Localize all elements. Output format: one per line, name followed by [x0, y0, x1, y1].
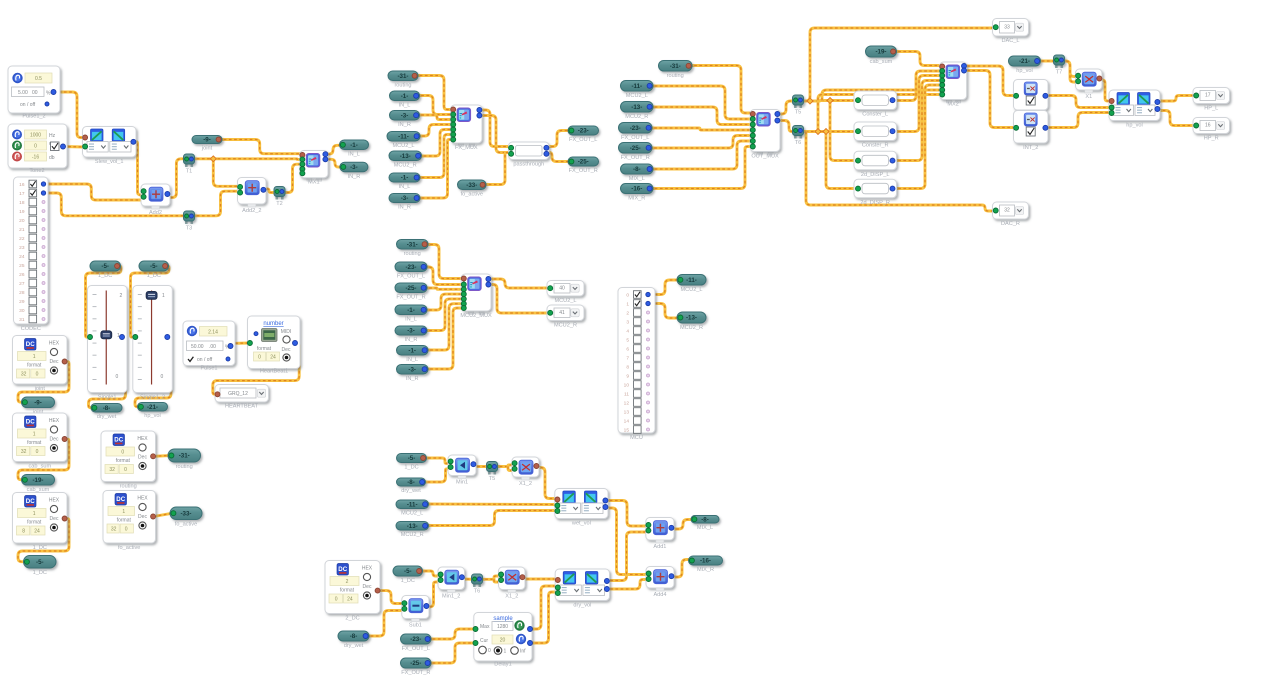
pill MCU2_L ref	[387, 132, 420, 150]
svg-text:-5-: -5-	[408, 455, 416, 462]
wire hp_vol mod to HP_R	[1158, 111, 1197, 126]
wire junction	[210, 156, 216, 162]
wire MX1 to pill IN_L	[323, 145, 343, 154]
svg-text:fo_active: fo_active	[118, 545, 140, 551]
svg-text:32: 32	[21, 449, 27, 455]
wire pill IN_R to MCU2_MUX	[424, 299, 461, 331]
svg-text:24: 24	[270, 355, 276, 361]
svg-text:1_DC: 1_DC	[98, 273, 112, 279]
wire Add4 to pill MIX_R	[671, 560, 693, 578]
wire MCU2_MUX to MCU2_R	[489, 285, 551, 314]
module 2d_DISP_R	[854, 179, 897, 206]
svg-text:T6: T6	[795, 140, 802, 146]
pill dry_wet ref b	[338, 631, 369, 649]
wire pill FX_OUT_R to MCU2_MUX	[424, 288, 461, 289]
svg-text:Inf: Inf	[520, 649, 526, 655]
svg-text:FX_OUT_L: FX_OUT_L	[569, 137, 597, 143]
wire T7 to X1 b	[1070, 70, 1078, 82]
wire pill FX_OUT_L to MCU2_MUX	[424, 267, 461, 285]
wire pill MCU2_L to wet_vol	[426, 503, 555, 506]
wire pill joint to MX1	[219, 140, 302, 154]
wire T5b to X1_2 a	[495, 465, 513, 467]
pill IN_L ref c	[389, 173, 420, 190]
svg-text:MCU2_L: MCU2_L	[554, 298, 576, 304]
pill IN_R send	[340, 162, 368, 180]
pill 1_DC ref d	[393, 566, 423, 584]
svg-text:Dec: Dec	[138, 514, 147, 520]
svg-text:50.00: 50.00	[191, 344, 204, 350]
wire MCU 1 to pill MCU2_R	[650, 304, 680, 319]
svg-text:DC: DC	[338, 566, 347, 573]
pill IN_L ref b	[390, 91, 420, 109]
wire pill routing to MCU2_MUX	[425, 245, 461, 279]
svg-text:-5-: -5-	[404, 568, 412, 575]
wire MX2 to INT_1	[962, 66, 1016, 96]
svg-text:MIX_L: MIX_L	[697, 525, 713, 531]
svg-text:DAC_R: DAC_R	[1001, 221, 1020, 227]
svg-text:-8-: -8-	[701, 517, 709, 524]
svg-text:MIX_R: MIX_R	[628, 196, 645, 202]
module Add4	[646, 567, 674, 599]
svg-text:0: 0	[488, 648, 491, 654]
wire pill IN_L 2 to FX_MUX	[417, 135, 451, 178]
svg-text:24: 24	[19, 254, 25, 260]
svg-text:24: 24	[34, 529, 40, 535]
svg-text:22: 22	[19, 236, 25, 242]
svg-text:19: 19	[19, 209, 25, 215]
svg-text:MX1: MX1	[308, 180, 320, 186]
wire FX_MUX to passthrough 1	[479, 110, 509, 147]
wire dry_vol to Add1	[605, 532, 646, 581]
svg-text:routing: routing	[394, 83, 411, 89]
svg-text:OUT_MUX: OUT_MUX	[751, 154, 779, 160]
svg-text:-11-: -11-	[631, 83, 642, 90]
module CODEC list	[14, 177, 49, 332]
svg-text:-21-: -21-	[1019, 58, 1030, 65]
svg-text:MX2: MX2	[947, 102, 959, 108]
wire T6 to MX2 g6	[818, 95, 941, 132]
svg-text:-1-: -1-	[401, 93, 409, 100]
wire pill IN_R to FX_MUX	[416, 115, 451, 120]
svg-text:1: 1	[33, 432, 36, 438]
svg-text:MIX_R: MIX_R	[697, 567, 714, 573]
wire T6b to X1_3 a	[480, 576, 499, 579]
svg-text:Hz: Hz	[49, 133, 56, 139]
svg-text:IN_R: IN_R	[398, 205, 411, 211]
pill 1_DC ref b	[139, 261, 169, 279]
node T5	[793, 95, 804, 116]
wire Conster_L to MX2	[893, 71, 940, 101]
svg-text:Dec: Dec	[282, 347, 291, 353]
module Min1	[448, 455, 476, 486]
module wet_vol	[555, 489, 608, 527]
wire X1_2 to wet_vol	[536, 468, 555, 499]
wire INT_1 to hp_vol mod	[1044, 96, 1111, 108]
svg-text:00: 00	[32, 90, 38, 96]
svg-text:Dec: Dec	[50, 437, 59, 443]
pill hp_vol send	[138, 403, 168, 420]
svg-text:dry_wet: dry_wet	[97, 414, 117, 420]
svg-text:5: 5	[626, 338, 629, 344]
svg-text:-31-: -31-	[397, 73, 408, 80]
svg-text:fo_active: fo_active	[175, 522, 197, 528]
svg-text:format: format	[257, 346, 272, 352]
wire pill 1_DC to Min1	[423, 458, 448, 464]
wire pill cab_sum to MX2	[893, 52, 940, 66]
wire pill MIX_R to OUT_MUX	[650, 147, 751, 189]
svg-text:-25-: -25-	[630, 145, 641, 152]
svg-text:8: 8	[22, 529, 25, 535]
svg-text:41: 41	[559, 310, 565, 316]
svg-text:CODEC: CODEC	[21, 326, 41, 332]
svg-text:0: 0	[125, 527, 128, 533]
svg-text:32: 32	[21, 372, 27, 378]
pill routing ref d	[659, 61, 693, 80]
wire pill 1_DC to Single1	[86, 266, 122, 337]
svg-text:-23-: -23-	[410, 636, 421, 643]
wire T5b to X1_2 b	[508, 467, 512, 471]
svg-text:12: 12	[624, 401, 630, 407]
module DC fo_active	[103, 491, 156, 552]
wire MCU 0 to pill MCU2_L	[650, 280, 680, 295]
svg-text:T6: T6	[474, 589, 481, 595]
module Conster_R	[854, 122, 897, 149]
svg-text:16: 16	[1205, 123, 1211, 129]
svg-text:Conster_R: Conster_R	[862, 143, 889, 149]
svg-text:-31-: -31-	[179, 453, 190, 460]
wire T2 to MX1	[282, 164, 302, 192]
svg-text:Sub1: Sub1	[409, 623, 422, 629]
svg-text:IN_R: IN_R	[348, 174, 361, 180]
svg-text:IN_R: IN_R	[405, 337, 418, 343]
svg-text:-5-: -5-	[36, 559, 44, 566]
wire pill routing to OUT_MUX	[689, 66, 750, 114]
module Conster_L	[854, 91, 897, 118]
svg-text:-1-: -1-	[401, 175, 409, 182]
dropdown DAC_R	[993, 202, 1029, 227]
svg-text:FX_OUT_L: FX_OUT_L	[621, 135, 649, 141]
wire dry_vol to Add4	[605, 580, 646, 590]
wire pill dry_wet to Min1	[423, 469, 449, 482]
svg-text:MCU2_R: MCU2_R	[625, 114, 648, 120]
dropdown MCU2_L	[547, 281, 584, 305]
pill cab_sum send	[22, 475, 55, 494]
svg-text:joint: joint	[34, 386, 46, 392]
pill IN_R ref e	[397, 365, 429, 383]
svg-text:MIDI: MIDI	[281, 329, 292, 335]
svg-text:0: 0	[34, 144, 37, 150]
wire T6 to Conster_R	[801, 130, 859, 133]
svg-text:T5: T5	[795, 110, 802, 116]
svg-text:%: %	[46, 91, 51, 97]
svg-text:T1: T1	[186, 169, 193, 175]
svg-text:-9-: -9-	[34, 399, 42, 406]
svg-text:IN_L: IN_L	[348, 152, 360, 158]
wire DC 2_DC to Sub1	[377, 591, 402, 604]
svg-text:hp_vol: hp_vol	[1126, 123, 1142, 129]
svg-text:-31-: -31-	[407, 241, 418, 248]
wire junction	[823, 129, 829, 135]
svg-text:Cur: Cur	[480, 638, 488, 644]
pill MCU2_R ref	[389, 151, 422, 169]
svg-text:-21-: -21-	[147, 404, 158, 411]
wire Delay1 to dry_vol 1	[530, 586, 555, 629]
svg-text:1000: 1000	[30, 133, 41, 139]
wire OUT_MUX to T5	[777, 101, 796, 114]
svg-text:Dec: Dec	[50, 516, 59, 522]
pill hp_vol ref	[1009, 56, 1041, 74]
node T6	[793, 126, 804, 147]
svg-text:18: 18	[19, 200, 25, 206]
module passthrough	[509, 142, 550, 168]
svg-text:Add1: Add1	[653, 544, 666, 550]
svg-text:dry_wet: dry_wet	[344, 643, 364, 649]
svg-text:21: 21	[19, 227, 25, 233]
svg-text:dry_wet: dry_wet	[401, 488, 421, 494]
svg-text:2_DC: 2_DC	[345, 616, 359, 622]
svg-text:-3-: -3-	[401, 113, 409, 120]
svg-text:-13-: -13-	[686, 315, 697, 322]
svg-text:25: 25	[19, 263, 25, 269]
svg-text:Add2: Add2	[149, 210, 162, 216]
pill 1_DC send	[24, 556, 57, 577]
svg-text:-3-: -3-	[407, 328, 415, 335]
svg-text:MCU: MCU	[630, 435, 643, 441]
svg-text:0: 0	[36, 372, 39, 378]
svg-text:32: 32	[1004, 208, 1010, 214]
module DC joint	[13, 336, 68, 393]
svg-text:GRQ_12: GRQ_12	[228, 391, 248, 397]
svg-text:0: 0	[36, 449, 39, 455]
svg-text:HEARTBEAT: HEARTBEAT	[225, 404, 259, 410]
svg-text:IN_L: IN_L	[406, 357, 418, 363]
wire wet_vol to Add1	[605, 501, 646, 527]
svg-text:10: 10	[624, 383, 630, 389]
svg-text:15: 15	[624, 428, 630, 434]
svg-text:HEX: HEX	[362, 566, 373, 572]
svg-text:cab_sum: cab_sum	[870, 59, 893, 65]
svg-text:1_DC: 1_DC	[401, 578, 415, 584]
svg-text:MCU2_R: MCU2_R	[554, 323, 577, 329]
wire Min1 to T5b	[472, 465, 490, 468]
svg-text:on / off: on / off	[197, 357, 213, 363]
wire T1 branch to Add2_2	[213, 159, 240, 187]
module Add1	[646, 518, 674, 551]
wire OUT_MUX to T6	[777, 121, 796, 132]
svg-text:passthrough: passthrough	[513, 162, 544, 168]
wire pill 1_DC to Single1_2	[131, 266, 170, 337]
module MCU2_MUX	[460, 274, 492, 319]
module Delay1	[473, 613, 533, 668]
pill joint ref	[192, 136, 222, 152]
svg-text:-11-: -11-	[398, 133, 409, 140]
svg-text:32: 32	[111, 527, 117, 533]
module Add2	[141, 184, 170, 216]
wire MX2 to INT_2	[962, 71, 1016, 128]
svg-text:1_DC: 1_DC	[147, 273, 161, 279]
node T1	[184, 154, 195, 175]
pill MIX_R send	[689, 556, 723, 573]
pill MCU2_L ref c	[396, 500, 429, 517]
module DC 1_DC	[13, 493, 68, 552]
wire passthrough to pill FX_OUT_L	[546, 131, 571, 147]
svg-text:5.00: 5.00	[18, 90, 28, 96]
svg-text:7: 7	[626, 356, 629, 362]
svg-text:FX_OUT_R: FX_OUT_R	[621, 155, 650, 161]
svg-text:routing: routing	[404, 251, 421, 257]
svg-text:-8-: -8-	[407, 479, 415, 486]
svg-text:2: 2	[346, 579, 349, 585]
svg-text:0: 0	[116, 374, 119, 380]
module hp_vol mod	[1109, 90, 1160, 129]
svg-text:format: format	[27, 440, 42, 446]
wire pill MCU2_R to FX_MUX	[419, 130, 451, 157]
svg-text:-1-: -1-	[407, 307, 415, 314]
wire pill FX_OUT_L to OUT_MUX	[649, 128, 750, 130]
svg-text:1_DC: 1_DC	[33, 570, 47, 576]
svg-text:9: 9	[626, 374, 629, 380]
wire pill FX_OUT_L to Delay1	[428, 629, 474, 639]
svg-text:HEX: HEX	[137, 496, 148, 502]
node T5b	[487, 462, 498, 483]
svg-text:31: 31	[19, 317, 25, 323]
svg-text:HP_L: HP_L	[1204, 106, 1218, 112]
svg-text:FX_MUX: FX_MUX	[455, 145, 478, 151]
svg-text:-5-: -5-	[101, 263, 109, 270]
module X1_3	[499, 567, 526, 600]
wire passthrough to pill FX_OUT_R	[546, 153, 571, 162]
svg-text:Dec: Dec	[363, 584, 372, 590]
svg-text:0: 0	[335, 597, 338, 603]
svg-text:-23-: -23-	[578, 128, 589, 135]
module MCU list	[618, 288, 655, 442]
svg-text:DAC_L: DAC_L	[1001, 38, 1019, 44]
wire T3 to Add2_2	[192, 191, 241, 216]
svg-text:0.5: 0.5	[35, 76, 42, 82]
svg-text:33: 33	[1004, 24, 1010, 30]
svg-text:23: 23	[19, 245, 25, 251]
svg-text:IN_L: IN_L	[399, 184, 411, 190]
svg-text:MCU2_L: MCU2_L	[392, 143, 414, 149]
svg-text:26: 26	[19, 272, 25, 278]
svg-text:-16-: -16-	[631, 186, 642, 193]
pill 1_DC ref a	[90, 261, 121, 279]
module INT_1	[1014, 80, 1049, 111]
module Add2_2	[238, 178, 267, 215]
wire X1_3 to dry_vol	[522, 578, 556, 581]
svg-text:Single1: Single1	[98, 395, 117, 401]
wire X1 to hp_vol mod	[1099, 80, 1111, 101]
svg-text:-25-: -25-	[578, 159, 589, 166]
svg-text:FX_OUT_L: FX_OUT_L	[397, 274, 425, 280]
wire pill IN_L to FX_MUX	[416, 96, 451, 115]
svg-text:MCU2_L: MCU2_L	[626, 93, 648, 99]
svg-text:HEX: HEX	[49, 341, 60, 347]
wire T6 to DAC_R	[806, 132, 996, 212]
svg-text:HEX: HEX	[137, 436, 148, 442]
svg-text:MCU2_R: MCU2_R	[394, 163, 417, 169]
svg-text:T5: T5	[489, 476, 496, 482]
svg-text:T3: T3	[186, 226, 193, 232]
svg-text:Delay1: Delay1	[494, 662, 511, 668]
svg-text:Single1_2: Single1_2	[140, 395, 165, 401]
svg-text:format: format	[27, 520, 42, 526]
svg-text:routing: routing	[667, 73, 684, 79]
pill MIX_L send	[691, 516, 719, 532]
module Slew_vol_1	[83, 127, 137, 166]
wire DC joint to pill joint	[18, 362, 69, 403]
pill IN_R ref b	[390, 111, 420, 129]
node T3	[184, 211, 195, 232]
wire T6b to X1_3 b	[494, 579, 499, 582]
svg-text:1: 1	[33, 354, 36, 360]
svg-text:40: 40	[559, 285, 565, 291]
wire junction	[807, 98, 813, 104]
module 2d_DISP_L	[854, 151, 897, 178]
module DC routing	[101, 431, 156, 490]
wire MCU2_MUX to MCU2_L	[489, 279, 551, 288]
svg-text:-3-: -3-	[401, 195, 409, 202]
svg-text:-5-: -5-	[150, 263, 158, 270]
module Pulse1_2	[8, 66, 60, 120]
wire T5 to DAC_L	[801, 28, 997, 101]
svg-text:routing: routing	[120, 484, 137, 490]
module OUT_MUX	[750, 110, 780, 160]
module Tone2	[8, 124, 67, 174]
svg-text:FX_OUT_R: FX_OUT_R	[401, 670, 430, 676]
svg-text:27: 27	[19, 281, 25, 287]
node T6b	[472, 574, 483, 595]
wire pill MCU2_L to FX_MUX	[417, 125, 451, 137]
svg-text:Slew_vol_1: Slew_vol_1	[95, 159, 124, 165]
svg-text:Min1_2: Min1_2	[442, 594, 460, 600]
svg-text:IN_L: IN_L	[399, 103, 411, 109]
svg-text:-16: -16	[32, 155, 39, 161]
svg-text:T2: T2	[276, 201, 283, 207]
wire pill FX_OUT_R to OUT_MUX	[649, 136, 750, 149]
wire pill dry_wet to Sub1	[366, 611, 402, 637]
wire pill IN_R 2 to FX_MUX	[417, 140, 451, 199]
svg-text:2.14: 2.14	[208, 330, 218, 336]
pill IN_L ref d	[395, 305, 427, 323]
svg-text:1_DC: 1_DC	[404, 465, 418, 471]
dropdown HP_L	[1193, 88, 1230, 112]
svg-text:Tone2: Tone2	[29, 168, 44, 174]
svg-text:-31-: -31-	[670, 63, 681, 70]
dropdown MCU2_R	[547, 305, 584, 329]
wire pill MIX_L to OUT_MUX	[650, 141, 751, 169]
wire pill FX_OUT_R to Delay1	[428, 643, 474, 663]
svg-text:-16-: -16-	[700, 558, 711, 565]
svg-text:format: format	[117, 518, 132, 524]
svg-text:Add2_2: Add2_2	[242, 208, 261, 214]
module FX_MUX	[451, 105, 482, 151]
svg-text:.00: .00	[209, 344, 216, 350]
wire Pulse1_2 to Slew_vol_1	[54, 92, 85, 138]
module dry_vol	[555, 569, 609, 609]
wire Pulse1 to HeartBeat1	[230, 342, 250, 345]
svg-text:16: 16	[19, 182, 25, 188]
svg-text:13: 13	[624, 410, 630, 416]
wire Add2 to T1	[166, 159, 187, 198]
svg-text:-8-: -8-	[633, 166, 641, 173]
svg-text:joint: joint	[201, 146, 213, 152]
svg-text:32: 32	[109, 467, 115, 473]
pill cab_sum ref	[866, 46, 897, 65]
svg-text:-25-: -25-	[405, 285, 416, 292]
wire Min1_2 to T6b	[462, 578, 476, 581]
svg-text:sample: sample	[493, 616, 513, 622]
